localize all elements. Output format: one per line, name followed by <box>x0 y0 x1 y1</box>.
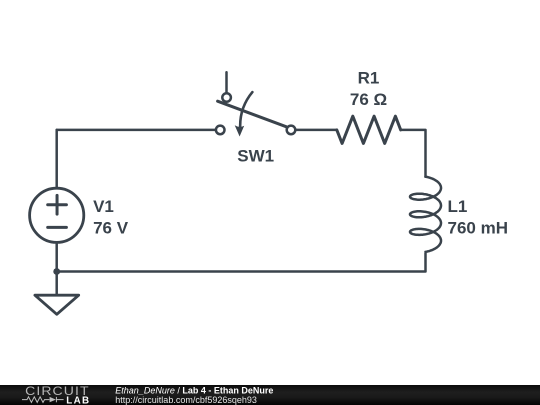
wire: top stub above switch <box>225 72 228 93</box>
switch SW1 <box>216 92 295 136</box>
svg-text:L1: L1 <box>448 197 468 216</box>
svg-text:760 mH: 760 mH <box>448 218 508 237</box>
svg-text:V1: V1 <box>93 197 114 216</box>
wire: V1 bottom lead to ground <box>55 242 58 295</box>
svg-text:Ethan_DeNure / Lab 4 - Ethan D: Ethan_DeNure / Lab 4 - Ethan DeNure <box>115 385 273 395</box>
svg-text:76 Ω: 76 Ω <box>350 90 387 109</box>
svg-text:http://circuitlab.com/cbf5926s: http://circuitlab.com/cbf5926sqeh93 <box>115 395 257 405</box>
wire: resistor to top-right corner and down to inductor <box>401 130 426 177</box>
voltage source V1 <box>30 188 84 242</box>
CircuitLab logo: resistor-diode line <box>22 397 64 403</box>
wire: switch right terminal to resistor <box>295 129 337 132</box>
svg-text:76 V: 76 V <box>93 219 129 238</box>
svg-text:R1: R1 <box>358 68 380 87</box>
ground <box>35 295 79 314</box>
inductor L1 <box>410 177 441 252</box>
svg-text:SW1: SW1 <box>237 147 274 166</box>
junction node dot <box>53 268 60 275</box>
svg-text:LAB: LAB <box>66 395 90 405</box>
wire: left horizontal from V1 to switch left terminal <box>57 129 216 132</box>
wire: inductor down to bottom-right corner and along bottom to V1 <box>57 253 426 271</box>
footer bar <box>0 385 540 405</box>
resistor R1 <box>337 116 401 143</box>
wire: V1 top lead <box>55 130 58 188</box>
